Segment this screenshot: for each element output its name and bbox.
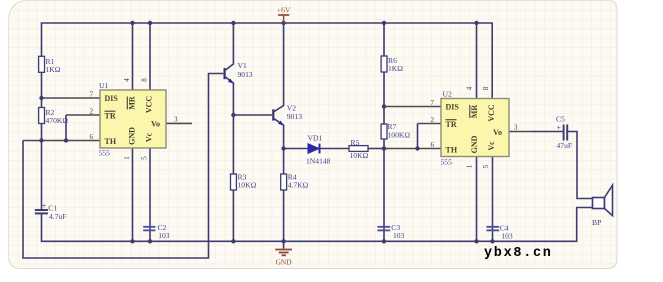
svg-text:4.7KΩ: 4.7KΩ [288,181,309,190]
wire: U1 pin5 through C2 to rail [149,148,151,241]
svg-text:U2: U2 [443,90,452,99]
wire: node to V2 base [233,114,272,116]
resistor R7 [381,124,387,139]
wire: U2 pin6 TH [384,148,441,150]
wire: U1 pin2 tee down [65,115,67,141]
junction U1 TR tee on TH wire [64,138,68,142]
svg-text:Vc: Vc [145,132,154,142]
power +6V [277,6,291,24]
svg-text:103: 103 [501,231,513,240]
svg-text:10KΩ: 10KΩ [238,181,257,190]
wire: R2 bottom to TH node [41,124,43,141]
resistor R4 [281,174,287,190]
wire: U1 pin4 line to rail [132,23,134,90]
resistor R5 (horizontal) [349,146,368,152]
U2 inner pin names [446,103,503,155]
speaker BP [593,185,613,215]
svg-text:+6V: +6V [277,6,291,15]
junction U1 pin1 on ground rail [130,239,134,243]
junction U1 pin8 on +6V rail [148,21,152,25]
svg-text:GND: GND [276,257,293,266]
wire: V1 emitter down to node [226,77,234,115]
wire: R1 to R2 left column [41,72,43,108]
wire: R3 bottom to rail [232,190,234,241]
U1 TR overline [105,110,116,112]
svg-text:+: + [557,124,562,133]
op-amp U2 555 timer body [441,99,509,157]
U2 MR overline [469,105,471,118]
wire: U1 pin8 line to rail [149,23,151,90]
U1 MR overline [126,97,128,110]
U1 pin numbers [90,78,179,160]
svg-text:7: 7 [90,91,94,99]
svg-text:6: 6 [90,133,94,141]
svg-text:TH: TH [105,137,117,146]
wire: R6 bottom to DIS node [383,72,385,124]
capacitor C4 [486,227,499,231]
junction U1 pin4 on +6V rail [130,21,134,25]
transistor V2 9013 [272,109,284,125]
wire: U1 pin6 TH [23,140,100,142]
svg-text:MR: MR [470,105,479,119]
wire: C5 to speaker top [568,132,593,199]
wire: R6 top to rail [383,23,385,56]
resistor R6 [381,56,387,72]
wire: U2 pin5 through C4 to rail [492,157,494,242]
junction V1 collector on +6V rail [231,21,235,25]
wire: U1 pin1 GND to rail [132,148,134,241]
wire: U2 pin4 line to rail [476,23,478,99]
svg-text:2: 2 [431,116,435,124]
svg-text:10KΩ: 10KΩ [350,151,369,160]
capacitor C2 [143,227,155,231]
U1 inner pin names [105,94,161,146]
svg-text:TH: TH [446,146,458,155]
svg-text:4: 4 [123,78,131,82]
svg-text:MR: MR [128,96,137,110]
wire: V1 collector to rail [226,23,234,70]
svg-text:8: 8 [482,86,490,90]
diode VD1 1N4148 [308,144,320,154]
wire: C1 bottom to ground rail [42,208,593,242]
svg-text:DIS: DIS [446,103,460,112]
svg-text:3: 3 [514,124,518,132]
capacitor C5 (polarized horizontal) [564,125,568,141]
svg-text:555: 555 [99,149,111,158]
svg-text:TR: TR [446,120,457,129]
wire: V2 collector to rail [274,23,283,112]
svg-text:47uF: 47uF [557,141,573,150]
wire: R7 bottom to TH node [383,139,385,149]
svg-text:Vo: Vo [151,120,160,129]
resistor R2 [39,108,45,124]
wire: U1 pin2 TR pin [66,114,100,116]
wire: R4 bottom to rail [283,190,285,241]
svg-text:+: + [42,202,47,211]
node C: R5 / R7 / C3 / U2 TH [382,146,386,150]
svg-text:VD1: VD1 [308,134,323,143]
junction R1/R2 with U1 DIS [39,96,43,100]
wire: node down to R4 [283,149,285,175]
wire: V2 emitter to node [274,119,283,149]
wire: U2 pin1 GND to rail [476,157,478,242]
svg-text:ybx8.cn: ybx8.cn [484,246,553,261]
node A: V1 emitter / V2 base / R3 [231,113,235,117]
transistor V1 9013 [224,68,234,83]
svg-text:U1: U1 [99,81,108,90]
svg-text:9013: 9013 [238,70,253,79]
junction C2 on ground rail [148,239,152,243]
svg-text:100KΩ: 100KΩ [388,131,411,140]
svg-text:103: 103 [393,231,405,240]
junction U2 pin4 on +6V rail [474,21,478,25]
wire: U2 pin3 stub [509,131,534,133]
junction R3 on ground rail [231,239,235,243]
wire: pin3 to C5 [533,131,563,133]
U2 pin numbers [431,86,519,168]
junction C4 on ground rail [490,239,494,243]
wire: V2 emitter node to VD1 anode [284,148,308,150]
wire: R5 to TH node of U2 [368,148,384,150]
svg-text:R5: R5 [351,138,360,147]
resistor R3 [231,174,237,190]
svg-text:6: 6 [431,141,435,149]
wire: TH node down to C1 [41,141,43,210]
svg-text:4: 4 [466,86,474,90]
svg-text:C5: C5 [556,115,565,124]
svg-text:3: 3 [174,116,178,124]
junction C3 on ground rail [382,239,386,243]
wire: U1 pin7 DIS [42,97,101,99]
wire: U2 pin2 tee down [417,124,419,149]
junction R6 top on +6V rail [382,21,386,25]
svg-text:V1: V1 [238,61,247,70]
wire: TH node through C3 to rail [383,149,385,242]
wire: U2 pin7 DIS [384,106,441,108]
junction U2 TR tee on TH wire [415,146,419,150]
wire: VD1 cathode to R5 [320,148,349,150]
wire: U1 pin3 output stub [166,122,192,124]
capacitor C1 (polarized) [35,210,48,213]
junction R6/R7 with U2 DIS [382,104,386,108]
svg-text:VCC: VCC [487,104,496,122]
ground [275,241,292,266]
junction R4 / GND on ground rail [281,239,285,243]
svg-text:1N4148: 1N4148 [306,157,331,166]
svg-text:BP: BP [592,218,601,227]
capacitor C3 [377,227,390,231]
svg-text:GND: GND [470,135,479,153]
svg-text:4.7uF: 4.7uF [49,212,67,221]
svg-text:GND: GND [128,127,137,145]
svg-text:470KΩ: 470KΩ [46,116,69,125]
junction U2 pin1 on ground rail [474,239,478,243]
svg-text:103: 103 [158,231,170,240]
wire: U2 pin2 TR pin [418,123,442,125]
svg-text:2: 2 [90,108,94,116]
op-amp U1 555 timer body [100,90,166,148]
wire: +6V top rail [42,23,493,99]
node B: V2 emitter / VD1 / R4 [281,146,285,150]
svg-text:1: 1 [123,156,131,160]
wire: TH node loop to V1 base [23,74,223,259]
svg-text:1: 1 [466,164,474,168]
junction V2 collector / +6V supply on rail [281,21,285,25]
svg-text:Vo: Vo [493,128,502,137]
junction R2 bottom with U1 TH [39,138,43,142]
U2 TR overline [446,119,457,121]
svg-text:1KΩ: 1KΩ [388,64,403,73]
svg-text:Vc: Vc [487,141,496,151]
svg-text:5: 5 [141,156,149,160]
resistor R1 [39,56,45,72]
svg-text:8: 8 [141,78,149,82]
svg-text:5: 5 [482,164,490,168]
svg-text:7: 7 [431,99,435,107]
svg-text:TR: TR [105,112,116,121]
svg-text:DIS: DIS [105,94,119,103]
svg-text:1KΩ: 1KΩ [46,65,61,74]
svg-text:555: 555 [441,158,453,167]
svg-text:VCC: VCC [145,96,154,114]
wire: node down to R3 [232,115,234,175]
svg-text:9013: 9013 [287,112,302,121]
